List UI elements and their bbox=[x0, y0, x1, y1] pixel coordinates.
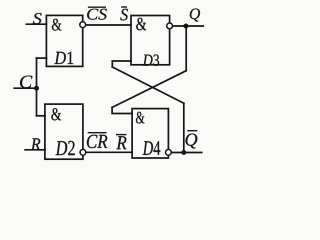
gate D4 (NAND) box bbox=[132, 109, 168, 158]
label S bbox=[33, 13, 42, 24]
gate D1 (NAND) box bbox=[46, 15, 82, 66]
wire Q feedback riser bbox=[185, 26, 187, 71]
gate D3 (NAND) box bbox=[131, 16, 170, 65]
wire R input bbox=[25, 149, 45, 151]
designator D4 bbox=[143, 141, 161, 155]
overline of S-bar bbox=[121, 6, 127, 8]
wire Q-bar feedback riser bbox=[183, 103, 185, 152]
bubble D1 output bbox=[80, 22, 86, 28]
wire C branch to D2 bbox=[37, 115, 45, 117]
overline of CS-bar bbox=[88, 6, 106, 8]
junction node Q-bar bbox=[181, 150, 186, 155]
wire C riser bbox=[36, 58, 38, 116]
bubble D2 output bbox=[80, 149, 86, 155]
gate D2 (NAND) box bbox=[45, 104, 83, 159]
symbol & of D3 bbox=[136, 18, 146, 31]
overline of R-bar bbox=[116, 134, 127, 136]
designator D2 bbox=[56, 141, 75, 155]
junction node Q bbox=[183, 24, 188, 29]
symbol & of D1 bbox=[52, 19, 62, 31]
overline of CR-bar bbox=[88, 132, 107, 134]
label R-bar letter bbox=[116, 136, 126, 149]
symbol & of D4 bbox=[136, 112, 145, 124]
wire Q feedback corner into D4 bbox=[112, 107, 132, 113]
label CS-bar letters bbox=[87, 9, 107, 20]
wire Q-bar feedback corner into D3 bbox=[112, 61, 131, 67]
wire Q-bar output bbox=[170, 152, 202, 154]
junction node C bbox=[34, 86, 39, 91]
wire Q output bbox=[171, 25, 203, 27]
wire C branch to D1 bbox=[37, 57, 47, 59]
label S-bar letter bbox=[120, 9, 128, 21]
overline of Q-bar bbox=[187, 130, 197, 132]
wire S input bbox=[26, 23, 46, 25]
designator D3 bbox=[143, 55, 159, 66]
label Q bbox=[190, 9, 200, 22]
label CR-bar letters bbox=[87, 135, 108, 148]
wire Q feedback diagonal bbox=[112, 71, 186, 108]
bubble D4 output bbox=[166, 149, 172, 155]
wire CR-bar from D2 to D4 bbox=[84, 151, 132, 153]
symbol & of D2 bbox=[51, 108, 61, 120]
wire Q-bar feedback diagonal bbox=[112, 67, 184, 103]
label R bbox=[31, 138, 41, 149]
bubble D3 output bbox=[167, 23, 173, 29]
designator D1 bbox=[54, 52, 73, 64]
label C bbox=[20, 76, 32, 88]
wire C input bbox=[14, 87, 36, 89]
wire CS-bar from D1 to D3 bbox=[84, 24, 131, 26]
label Q-bar letter bbox=[186, 134, 198, 149]
